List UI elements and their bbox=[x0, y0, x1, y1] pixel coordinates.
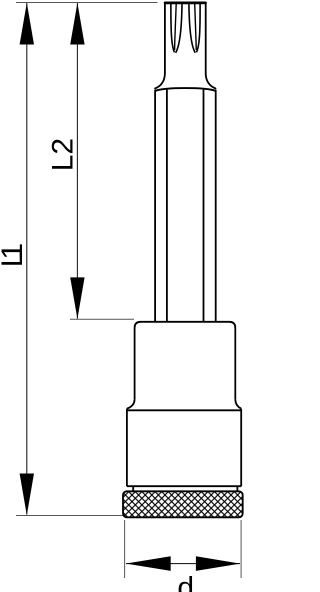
svg-text:L2: L2 bbox=[47, 138, 80, 171]
svg-text:d: d bbox=[177, 571, 194, 592]
